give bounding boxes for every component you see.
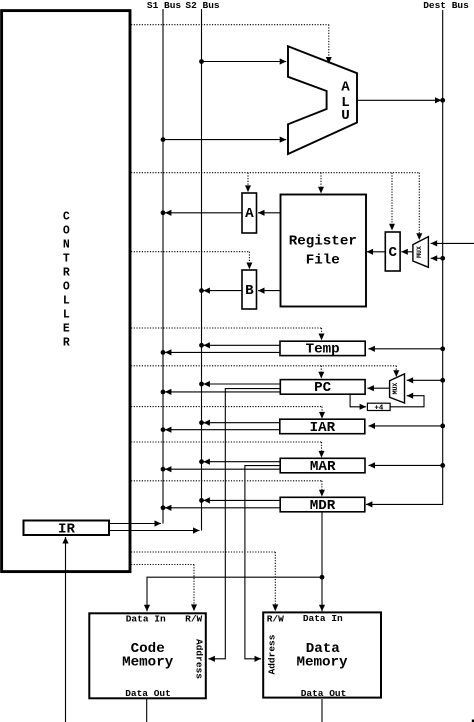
mux MUX-PC (390, 374, 405, 403)
node junction PC/S2 (199, 382, 204, 387)
svg-text:Memory: Memory (296, 654, 348, 670)
node junction PC/S1 (161, 390, 166, 395)
svg-text:MAR: MAR (310, 459, 336, 475)
svg-text:R/W: R/W (267, 613, 284, 624)
arrowhead control drop into Code Memory R/W (191, 604, 197, 611)
arrowhead control drop into MUX-PC top (393, 370, 399, 377)
arrowhead control drop into IAR top (319, 412, 325, 419)
control line row2 to A, Register File, C, MUX-C (dotted) (131, 172, 419, 174)
svg-text:O: O (63, 280, 70, 293)
svg-text:A: A (341, 79, 350, 95)
control line row9 to Data Memory R/W (dotted) (131, 551, 275, 553)
svg-text:IR: IR (58, 521, 76, 537)
node junction MDR/S1 (161, 505, 166, 510)
svg-text:U: U (341, 108, 350, 124)
svg-text:Dest Bus: Dest Bus (423, 0, 469, 11)
svg-text:N: N (63, 238, 70, 251)
node junction A/S1 (161, 210, 166, 215)
svg-text:Memory: Memory (122, 654, 174, 670)
node junction S2/ALU (199, 59, 204, 64)
node junction S1/ALU (161, 137, 166, 142)
svg-text:IAR: IAR (310, 420, 336, 436)
arrowhead control drop into Temp top (319, 334, 325, 341)
arrowhead control drop into Data Memory R/W (272, 604, 278, 611)
control line row5 to PC and MUX-PC (dotted) (131, 365, 396, 367)
svg-text:R: R (63, 266, 70, 279)
svg-text:R: R (63, 336, 70, 349)
svg-text:S2 Bus: S2 Bus (185, 0, 220, 11)
wire B to S2 bus (203, 290, 241, 292)
wire S2 bus to ALU upper input (202, 61, 287, 63)
control line row4 to Temp (dotted) (131, 327, 322, 329)
wire MUX-PC to PC (367, 387, 389, 389)
arrowhead control drop into B top (246, 263, 252, 270)
wire Dest bus to Temp (368, 348, 442, 350)
control line row8 to MDR (dotted) (131, 480, 322, 482)
svg-text:Register: Register (289, 233, 357, 249)
register file U-RF (281, 195, 367, 307)
svg-text:Address: Address (193, 639, 204, 679)
wire PC to Code Memory address (208, 389, 280, 659)
node junction MDR/S2 (199, 498, 204, 503)
svg-text:A: A (245, 206, 254, 222)
arrowhead control drop into MDR top (319, 490, 325, 497)
wire Dest bus vertical with bend into MDR (366, 10, 443, 504)
control line row7 to MAR (dotted) (131, 441, 322, 443)
wire MUX-C to C (401, 251, 413, 253)
register IR (24, 521, 110, 536)
node junction Dest/IAR (440, 424, 445, 429)
node junction Temp/S2 (199, 343, 204, 348)
register PC (280, 380, 365, 395)
wire junction to Code Memory Data In (147, 577, 322, 611)
adder +4 (367, 403, 390, 410)
svg-text:File: File (306, 253, 340, 269)
arrowhead control drop into ALU top (326, 57, 332, 64)
wire Dest bus to MUX-PC (407, 379, 443, 381)
svg-text:PC: PC (314, 380, 332, 396)
wire MAR to S1 bus (165, 468, 280, 470)
wire IAR to S1 bus (165, 429, 280, 431)
wire S1 bus vertical (162, 9, 164, 524)
node junction B/S2 (199, 288, 204, 293)
node junction MDR-drop/CodeDataIn (320, 575, 325, 580)
node junction IAR/S2 (199, 420, 204, 425)
svg-text:R/W: R/W (185, 613, 202, 624)
wire Dest bus to MUX-C (431, 257, 443, 259)
node junction Dest/MUX-C (440, 256, 445, 261)
register MDR (280, 497, 365, 512)
node Dest Bus label (423, 0, 469, 11)
svg-text:Temp: Temp (306, 341, 340, 357)
wire Temp to S1 bus (165, 351, 280, 353)
wire C to Register File (367, 251, 385, 253)
register A (242, 193, 257, 233)
memory Code Memory (89, 613, 206, 698)
register C (385, 232, 400, 271)
wire Register File to B (258, 290, 280, 292)
svg-text:Data Out: Data Out (301, 688, 347, 699)
node junction Dest/Temp (440, 346, 445, 351)
svg-text:E: E (63, 322, 70, 335)
control line row1 to ALU (dotted) (131, 25, 419, 605)
wire +4 to MUX-PC (390, 396, 424, 407)
page artifact bottom-right (472, 720, 474, 722)
node junction MAR/S1 (161, 467, 166, 472)
control line row6 to IAR (dotted) (131, 406, 322, 408)
wire PC to +4 (350, 394, 366, 406)
wire external input to MUX-C (431, 242, 474, 244)
memory Data Memory (263, 612, 381, 697)
node junction ALU-out/Dest (440, 98, 445, 103)
svg-text:MUX: MUX (392, 383, 399, 395)
arrowhead control drop into MAR top (319, 451, 325, 458)
mux MUX-C (413, 237, 429, 268)
svg-text:C: C (389, 245, 398, 261)
wire Code Memory Data Out down (146, 699, 148, 722)
svg-text:T: T (63, 252, 70, 265)
svg-text:+4: +4 (374, 405, 384, 413)
arrowhead control drop into PC top (318, 372, 324, 379)
svg-text:Data Out: Data Out (125, 688, 171, 699)
node junction Dest/MAR (440, 463, 445, 468)
register B (242, 270, 257, 309)
svg-text:Address: Address (267, 634, 278, 674)
wire Code Memory Data Out up to IR (65, 537, 67, 722)
controller U-CTRL (2, 11, 130, 572)
wire PC to S2 bus (203, 383, 280, 385)
node S1 Bus label (147, 0, 182, 11)
svg-text:L: L (63, 308, 70, 321)
op ALU (288, 46, 357, 154)
wire IAR to S2 bus (203, 422, 280, 424)
arrowhead control drop into Register File top (318, 187, 324, 194)
wire IR to S1 bus (110, 523, 162, 525)
wire ALU output to Dest bus (357, 99, 442, 101)
svg-text:Data In: Data In (303, 613, 343, 624)
svg-text:O: O (63, 224, 70, 237)
wire Dest bus to MAR (369, 464, 443, 466)
control line row3 to B (dotted) (131, 251, 249, 253)
node junction Dest/MUX-PC (440, 378, 445, 383)
wire MAR to S2 bus (203, 461, 280, 463)
wire Temp to S2 bus (203, 344, 280, 346)
wire PC to S1 bus (165, 391, 280, 393)
wire A to S1 bus (165, 212, 242, 214)
register MAR (280, 458, 365, 473)
wire MDR to S1 bus (165, 507, 280, 509)
svg-text:S1 Bus: S1 Bus (147, 0, 182, 11)
node junction IAR/S1 (161, 427, 166, 432)
register Temp (280, 341, 365, 355)
node junction MAR/S2 (199, 459, 204, 464)
svg-text:MDR: MDR (310, 498, 336, 514)
arrowhead control drop into C top (389, 224, 395, 231)
arrowhead control drop into A top (245, 185, 251, 192)
control line row10 to Code Memory R/W (dotted) (131, 564, 194, 566)
wire MDR to S2 bus (203, 499, 280, 501)
svg-text:B: B (245, 283, 254, 299)
wire S2 bus vertical (201, 9, 203, 531)
svg-text:MUX: MUX (416, 246, 423, 258)
node S2 Bus label (185, 0, 220, 11)
arrowhead control drop into MUX-C top (416, 233, 422, 240)
wire Register File to A (258, 212, 280, 214)
wire IR to S2 bus (110, 530, 200, 532)
svg-text:Data In: Data In (126, 613, 166, 624)
wire MAR to Data Memory address (245, 466, 280, 659)
svg-text:C: C (63, 210, 70, 223)
register IAR (280, 419, 365, 434)
svg-text:L: L (63, 294, 70, 307)
wire S1 bus to ALU lower input (163, 139, 286, 141)
node junction Temp/S1 (161, 350, 166, 355)
wire MDR down to Data Memory Data In (321, 512, 323, 611)
wire Data Memory Data Out down (321, 699, 323, 722)
wire Dest bus to IAR (369, 425, 443, 427)
